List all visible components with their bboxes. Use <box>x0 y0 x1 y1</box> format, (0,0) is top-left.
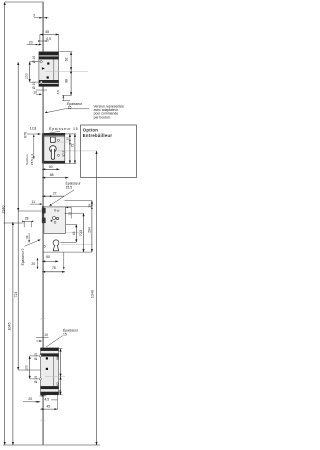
svg-text:20: 20 <box>28 397 32 401</box>
svg-text:Épaisseur 9: Épaisseur 9 <box>20 248 25 265</box>
svg-text:78: 78 <box>52 266 56 270</box>
svg-text:11: 11 <box>32 200 36 204</box>
svg-text:1340: 1340 <box>91 290 95 298</box>
svg-text:68: 68 <box>50 173 54 177</box>
svg-text:100: 100 <box>25 365 29 371</box>
svg-text:Ø 10: Ø 10 <box>34 376 38 383</box>
svg-text:98: 98 <box>64 79 68 83</box>
svg-text:3: 3 <box>33 14 35 18</box>
svg-text:20: 20 <box>31 262 35 266</box>
svg-text:15: 15 <box>63 332 67 336</box>
svg-text:37,5: 37,5 <box>62 150 66 156</box>
svg-text:Entrebâilleur: Entrebâilleur <box>83 133 113 138</box>
svg-text:50: 50 <box>49 165 53 169</box>
svg-text:Option: Option <box>83 127 98 132</box>
svg-text:15,5: 15,5 <box>66 186 73 190</box>
svg-text:20: 20 <box>29 40 33 44</box>
svg-text:Ø 10: Ø 10 <box>34 353 38 360</box>
svg-text:Ø 10: Ø 10 <box>32 56 36 63</box>
svg-text:2340: 2340 <box>2 206 6 214</box>
svg-text:72: 72 <box>70 143 74 147</box>
svg-text:10: 10 <box>33 90 37 94</box>
svg-text:Épaisseur 15: Épaisseur 15 <box>49 126 78 131</box>
svg-text:48: 48 <box>72 231 76 235</box>
svg-text:4,5: 4,5 <box>58 389 62 394</box>
svg-text:28: 28 <box>25 217 29 221</box>
svg-text:par bouton.: par bouton. <box>94 115 111 119</box>
svg-text:28: 28 <box>88 204 92 208</box>
svg-text:724: 724 <box>14 292 18 298</box>
svg-text:20: 20 <box>65 137 69 141</box>
svg-text:100: 100 <box>25 73 29 79</box>
svg-text:15: 15 <box>68 212 72 216</box>
svg-text:45: 45 <box>46 404 50 408</box>
svg-text:12,8: 12,8 <box>30 127 37 131</box>
svg-text:4,5: 4,5 <box>46 37 51 41</box>
svg-text:4,5: 4,5 <box>56 90 60 95</box>
svg-text:98: 98 <box>56 356 60 360</box>
svg-text:27: 27 <box>53 191 57 195</box>
svg-text:45: 45 <box>45 30 49 34</box>
svg-text:62: 62 <box>64 57 68 61</box>
svg-text:10: 10 <box>44 333 48 337</box>
svg-text:62: 62 <box>56 382 60 386</box>
svg-text:50: 50 <box>46 255 50 259</box>
svg-text:36: 36 <box>25 235 29 239</box>
svg-text:70,5: 70,5 <box>79 230 83 237</box>
svg-text:676: 676 <box>24 132 28 138</box>
svg-text:1045: 1045 <box>8 323 12 331</box>
svg-text:4,5: 4,5 <box>44 397 49 401</box>
svg-text:Ø 10: Ø 10 <box>32 82 36 89</box>
svg-text:294: 294 <box>88 227 92 233</box>
svg-text:Section: Section <box>25 154 29 165</box>
svg-text:23,5 x 3: 23,5 x 3 <box>30 154 34 165</box>
